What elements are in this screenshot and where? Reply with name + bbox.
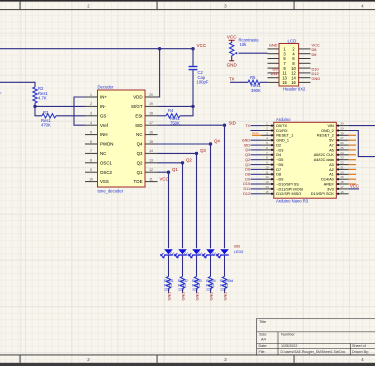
svg-text:5: 5 <box>90 130 92 134</box>
decoder pin names <box>100 95 143 185</box>
svg-text:StD: StD <box>244 143 250 147</box>
svg-text:R4: R4 <box>168 108 174 113</box>
wire Q2 <box>158 163 183 249</box>
svg-text:D11: D11 <box>244 187 251 191</box>
svg-text:Decoder: Decoder <box>98 85 114 90</box>
MCU reset_1 orange stub <box>252 134 262 136</box>
MCU pin numbers <box>265 122 344 194</box>
svg-text:9: 9 <box>90 168 92 172</box>
resistor R5 <box>229 75 268 93</box>
svg-text:1/25/2022: 1/25/2022 <box>281 344 297 348</box>
LCD net labels <box>269 42 320 81</box>
LED5 <box>217 244 244 300</box>
MCU pin names <box>276 124 334 196</box>
svg-text:15: 15 <box>265 190 269 194</box>
svg-text:D0/TX: D0/TX <box>276 124 287 128</box>
wire down to R3 <box>35 106 42 115</box>
resistor R3 <box>41 110 85 128</box>
svg-text:Q1: Q1 <box>245 163 250 167</box>
svg-text:3: 3 <box>224 357 227 362</box>
svg-text:D6: D6 <box>245 168 250 172</box>
svg-text:Vref: Vref <box>100 123 109 128</box>
svg-text:Arduino Nano R3: Arduino Nano R3 <box>276 199 309 204</box>
wire input <box>0 82 35 87</box>
svg-text:8: 8 <box>266 156 268 160</box>
svg-text:390K: 390K <box>251 88 261 93</box>
svg-text:R5: R5 <box>250 75 256 80</box>
svg-text:D8: D8 <box>245 173 250 177</box>
svg-text:GS: GS <box>100 113 106 118</box>
svg-text:StD: StD <box>135 123 142 128</box>
svg-text:F: F <box>0 91 2 96</box>
svg-text:3: 3 <box>224 3 227 8</box>
svg-text:TOE: TOE <box>134 179 143 184</box>
svg-text:120: 120 <box>206 288 212 292</box>
svg-text:4: 4 <box>90 121 92 125</box>
svg-text:17: 17 <box>149 121 153 125</box>
svg-text:GND: GND <box>195 292 200 301</box>
svg-text:~D9: ~D9 <box>276 178 283 182</box>
svg-text:19: 19 <box>149 102 153 106</box>
MCU right orange stubs <box>349 135 356 184</box>
svg-text:6: 6 <box>90 140 92 144</box>
LCD pin numbers <box>282 47 296 86</box>
svg-text:LED5: LED5 <box>234 250 243 254</box>
svg-text:VIN: VIN <box>327 124 334 128</box>
wire St/GT pin19 <box>158 105 194 107</box>
svg-text:RESET_2: RESET_2 <box>317 134 334 138</box>
wire to IN- <box>35 105 85 107</box>
svg-text:2: 2 <box>90 102 92 106</box>
LED3 <box>189 249 208 300</box>
svg-text:TX: TX <box>245 124 250 128</box>
MCU right wires <box>349 125 375 127</box>
svg-text:4.7K: 4.7K <box>38 95 47 100</box>
svg-text:11: 11 <box>265 170 268 174</box>
svg-text:St/GT: St/GT <box>131 104 143 109</box>
capacitor C2 <box>189 49 209 107</box>
resistor R4 <box>158 106 194 125</box>
svg-text:Drawn By:: Drawn By: <box>352 350 369 354</box>
svg-text:D13/SPI SCK: D13/SPI SCK <box>311 192 334 196</box>
svg-text:22: 22 <box>340 161 344 165</box>
svg-text:16: 16 <box>291 80 296 85</box>
svg-text:D7: D7 <box>276 168 281 172</box>
svg-text:15: 15 <box>282 80 287 85</box>
svg-text:D:\users\SAE-Rougier_SM\Sheet1: D:\users\SAE-Rougier_SM\Sheet1.SchDoc <box>281 350 346 354</box>
wire Q1 <box>158 172 169 248</box>
svg-text:120: 120 <box>178 288 184 292</box>
svg-text:Q1: Q1 <box>172 167 178 172</box>
svg-text:27: 27 <box>340 136 344 140</box>
svg-text:D11: D11 <box>271 71 278 76</box>
svg-text:4: 4 <box>361 3 364 8</box>
svg-text:D12/SPI MISO: D12/SPI MISO <box>276 192 301 196</box>
svg-text:D8: D8 <box>276 173 281 177</box>
LCD pins <box>268 49 311 83</box>
svg-text:VCC: VCC <box>350 184 359 189</box>
svg-text:D14/A0: D14/A0 <box>321 178 334 182</box>
connector LCD <box>279 38 306 91</box>
svg-text:Number: Number <box>281 332 296 337</box>
svg-text:4: 4 <box>361 357 364 362</box>
svg-text:AREF: AREF <box>324 182 335 186</box>
svg-text:GND: GND <box>269 42 278 47</box>
MCU 3V3 VCC wire <box>349 188 359 190</box>
svg-text:Title: Title <box>259 319 266 324</box>
svg-text:D10: D10 <box>243 182 250 186</box>
svg-text:20: 20 <box>149 93 153 97</box>
svg-text:VDD: VDD <box>133 95 142 100</box>
svg-text:R3: R3 <box>43 110 49 115</box>
svg-text:D12: D12 <box>243 192 250 196</box>
svg-text:StD: StD <box>234 244 240 248</box>
MCU left wires <box>251 126 262 194</box>
svg-text:VSS: VSS <box>100 179 109 184</box>
svg-text:21: 21 <box>340 165 344 169</box>
svg-text:23: 23 <box>340 156 344 160</box>
node C2/St-GT <box>191 105 194 108</box>
svg-text:VCC: VCC <box>227 34 237 39</box>
svg-text:Q2: Q2 <box>186 157 192 162</box>
svg-text:LCD: LCD <box>288 38 297 43</box>
decoder pin numbers <box>89 93 153 182</box>
svg-text:26: 26 <box>340 141 344 145</box>
svg-text:IN-: IN- <box>100 104 106 109</box>
svg-text:Q2: Q2 <box>137 160 143 165</box>
svg-text:StD: StD <box>229 121 236 126</box>
svg-text:Q2: Q2 <box>245 158 250 162</box>
svg-text:Q4: Q4 <box>245 148 250 152</box>
svg-text:~D11/SPI MOSI: ~D11/SPI MOSI <box>276 187 303 191</box>
svg-text:Q4: Q4 <box>137 142 143 147</box>
svg-text:RESET_1: RESET_1 <box>276 134 293 138</box>
svg-text:7: 7 <box>90 149 92 153</box>
svg-text:tone_decoder: tone_decoder <box>98 188 124 193</box>
LED2 <box>175 249 194 300</box>
svg-text:3: 3 <box>266 131 268 135</box>
svg-text:Q3: Q3 <box>245 153 250 157</box>
svg-text:3V3: 3V3 <box>327 187 334 191</box>
LED1 <box>161 249 180 300</box>
svg-text:Q3: Q3 <box>200 148 206 153</box>
svg-text:OSC2: OSC2 <box>100 170 113 175</box>
wire VDD riser <box>158 49 160 97</box>
IC decoder U1 <box>98 85 146 194</box>
svg-text:Q1: Q1 <box>137 170 143 175</box>
svg-text:GND: GND <box>167 292 172 301</box>
svg-text:8: 8 <box>90 159 92 163</box>
node VCC top <box>191 47 194 50</box>
node R2/IN- <box>33 105 36 108</box>
svg-text:120: 120 <box>220 288 226 292</box>
LED4 <box>203 249 222 300</box>
svg-text:2: 2 <box>87 3 90 8</box>
svg-text:D2: D2 <box>276 144 281 148</box>
svg-text:NC: NC <box>100 151 106 156</box>
svg-text:A4: A4 <box>261 337 267 342</box>
svg-text:19: 19 <box>340 175 344 179</box>
svg-text:11: 11 <box>149 177 153 181</box>
svg-text:A2: A2 <box>329 168 334 172</box>
wire StD <box>158 125 225 248</box>
svg-text:GND: GND <box>242 138 251 142</box>
svg-text:~D10/SPI SS: ~D10/SPI SS <box>276 182 299 186</box>
svg-text:20: 20 <box>340 170 344 174</box>
svg-text:~D6: ~D6 <box>276 163 283 167</box>
svg-text:Date:: Date: <box>259 344 268 348</box>
svg-text:VCC: VCC <box>197 43 207 48</box>
svg-text:29: 29 <box>340 127 344 131</box>
svg-text:D9: D9 <box>245 177 250 181</box>
svg-text:File:: File: <box>259 350 266 354</box>
svg-text:12: 12 <box>265 175 269 179</box>
svg-text:GND: GND <box>181 292 186 301</box>
svg-text:A1: A1 <box>329 173 334 177</box>
svg-text:A5/I2C CLK: A5/I2C CLK <box>314 153 335 157</box>
svg-text:VCC: VCC <box>160 177 169 182</box>
svg-text:Q3: Q3 <box>137 151 143 156</box>
svg-text:GND_1: GND_1 <box>276 139 289 143</box>
svg-text:Header 8X2: Header 8X2 <box>283 87 306 92</box>
potentiometer Rcontraste <box>227 34 268 67</box>
svg-text:28: 28 <box>340 131 344 135</box>
svg-text:INH: INH <box>100 132 108 137</box>
svg-text:7: 7 <box>266 151 268 155</box>
svg-text:Sheet of: Sheet of <box>352 344 367 348</box>
decoder pins left <box>85 97 158 182</box>
svg-text:GND_2: GND_2 <box>321 129 334 133</box>
svg-text:4: 4 <box>266 136 268 140</box>
svg-text:14: 14 <box>265 185 269 189</box>
svg-text:D1/RX: D1/RX <box>276 129 288 133</box>
svg-text:~D5: ~D5 <box>276 158 283 162</box>
svg-text:A7: A7 <box>329 144 334 148</box>
svg-text:A4/I2C data: A4/I2C data <box>314 158 335 162</box>
resistor R2 <box>33 86 49 106</box>
MCU left net labels <box>242 124 251 196</box>
svg-text:IN+: IN+ <box>100 95 107 100</box>
svg-text:GND: GND <box>223 292 228 301</box>
svg-text:GND: GND <box>209 292 214 301</box>
svg-text:10k: 10k <box>240 42 248 47</box>
svg-text:NC: NC <box>136 132 142 137</box>
svg-text:16: 16 <box>340 190 344 194</box>
svg-text:24: 24 <box>340 151 344 155</box>
svg-text:2: 2 <box>87 357 90 362</box>
svg-text:10: 10 <box>265 165 269 169</box>
wire IN+ to Vref tie <box>74 97 85 125</box>
junction dot pin20 riser <box>158 47 161 50</box>
svg-text:TX: TX <box>229 76 235 81</box>
svg-text:A6: A6 <box>329 148 334 152</box>
svg-text:~D3: ~D3 <box>276 148 283 152</box>
svg-text:12: 12 <box>149 168 153 172</box>
sheet frame bottom band <box>0 355 375 366</box>
svg-text:100pF: 100pF <box>197 80 209 85</box>
svg-text:18: 18 <box>149 112 153 116</box>
svg-text:GND: GND <box>312 76 321 81</box>
svg-text:1: 1 <box>266 122 268 126</box>
MCU pin dots <box>271 124 339 195</box>
svg-text:A3: A3 <box>329 163 334 167</box>
svg-text:Q4: Q4 <box>214 139 220 144</box>
svg-text:2: 2 <box>266 127 268 131</box>
MCU Arduino U2 <box>274 117 337 204</box>
svg-text:1: 1 <box>90 93 92 97</box>
wire long top <box>0 48 193 50</box>
svg-text:5: 5 <box>266 141 268 145</box>
svg-text:OSC1: OSC1 <box>100 160 113 165</box>
svg-text:17: 17 <box>340 185 344 189</box>
svg-text:GND: GND <box>227 63 238 68</box>
svg-text:470K: 470K <box>41 123 51 128</box>
svg-text:ESt: ESt <box>135 113 143 118</box>
svg-text:10: 10 <box>89 177 93 181</box>
wire Q3 <box>158 153 197 248</box>
svg-text:14: 14 <box>149 149 153 153</box>
wire Q4 <box>158 144 211 248</box>
svg-text:PWDN: PWDN <box>100 142 113 147</box>
svg-text:30: 30 <box>340 122 344 126</box>
svg-text:15: 15 <box>149 140 153 144</box>
svg-text:18: 18 <box>340 180 344 184</box>
svg-text:120: 120 <box>192 288 198 292</box>
svg-text:13: 13 <box>149 159 153 163</box>
svg-text:Reset: Reset <box>252 131 259 135</box>
svg-text:5V: 5V <box>329 139 334 143</box>
MCU pins left stubs <box>262 126 349 194</box>
svg-text:13: 13 <box>265 180 269 184</box>
svg-text:Arduino: Arduino <box>276 117 291 122</box>
svg-text:D4: D4 <box>276 153 281 157</box>
sheet frame top band <box>0 0 375 10</box>
svg-text:D6: D6 <box>312 52 317 57</box>
svg-text:6: 6 <box>266 146 268 150</box>
svg-text:16: 16 <box>149 130 153 134</box>
svg-text:25: 25 <box>340 146 344 150</box>
svg-text:120: 120 <box>164 288 170 292</box>
title block <box>257 318 375 354</box>
svg-text:9: 9 <box>266 161 268 165</box>
svg-text:3: 3 <box>90 112 92 116</box>
